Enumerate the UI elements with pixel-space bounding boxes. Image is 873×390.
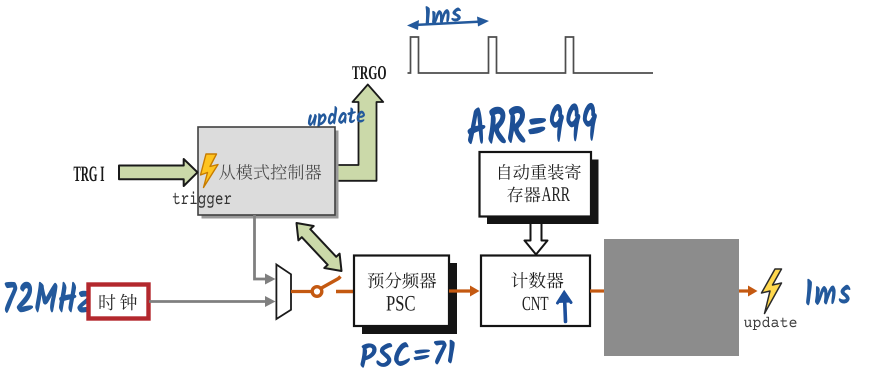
label PSC [386, 296, 414, 311]
label update (bottom right) [744, 317, 796, 330]
box clock (时钟) [89, 285, 149, 319]
wire clock to mux [149, 300, 266, 303]
box update event (gray) [604, 239, 739, 356]
label trigger [173, 191, 231, 207]
wire slave controller to mux [255, 215, 267, 279]
label 计数器 [511, 272, 563, 288]
label 自动重装寄 [499, 164, 581, 180]
wire mux to switch [291, 290, 311, 293]
label 1ms (right) [805, 277, 851, 306]
label CNT [523, 297, 549, 310]
box slave mode controller shadow [202, 131, 339, 219]
wire waveform pulse train [408, 37, 654, 73]
box prescaler PSC [354, 256, 449, 327]
label 1ms (top) [423, 1, 462, 25]
box counter CNT [481, 256, 590, 327]
label TRGI [74, 166, 104, 181]
wire update event to lightning [739, 289, 749, 292]
arrow count up (blue hand-drawn) [558, 293, 572, 322]
label 从模式控制器 [219, 164, 321, 180]
switch (open) [312, 287, 322, 297]
box auto-reload register ARR shadow [487, 160, 599, 225]
icon lightning (update event) [762, 269, 782, 314]
wire CNT to update event box [590, 289, 604, 292]
label 72MHz [5, 282, 91, 313]
label 预分频器 [368, 272, 436, 288]
arrow TRGO (green block arrow up from slave controller) [337, 85, 383, 181]
mux selector [276, 265, 291, 320]
wire switch to PSC [336, 290, 354, 293]
label PSC=71 [359, 339, 455, 369]
dimension arrow for 1ms period [407, 17, 489, 31]
label 时钟 [100, 294, 137, 311]
icon lightning (slave mode controller) [201, 154, 219, 188]
arrow ARR to CNT (white block arrow down) [525, 223, 548, 255]
box slave mode controller [198, 127, 335, 215]
box auto-reload register ARR [480, 152, 592, 217]
wire PSC to CNT [449, 289, 471, 292]
label 存器ARR [507, 187, 540, 203]
box prescaler PSC shadow [362, 263, 457, 334]
label ARR=999 [467, 103, 598, 146]
arrow trigger sync (green double-headed diagonal) [297, 223, 342, 271]
label TRGO [352, 66, 386, 79]
label update (blue handwriting near TRGO) [307, 104, 366, 132]
arrow TRGI (green block arrow into slave controller) [119, 159, 198, 186]
